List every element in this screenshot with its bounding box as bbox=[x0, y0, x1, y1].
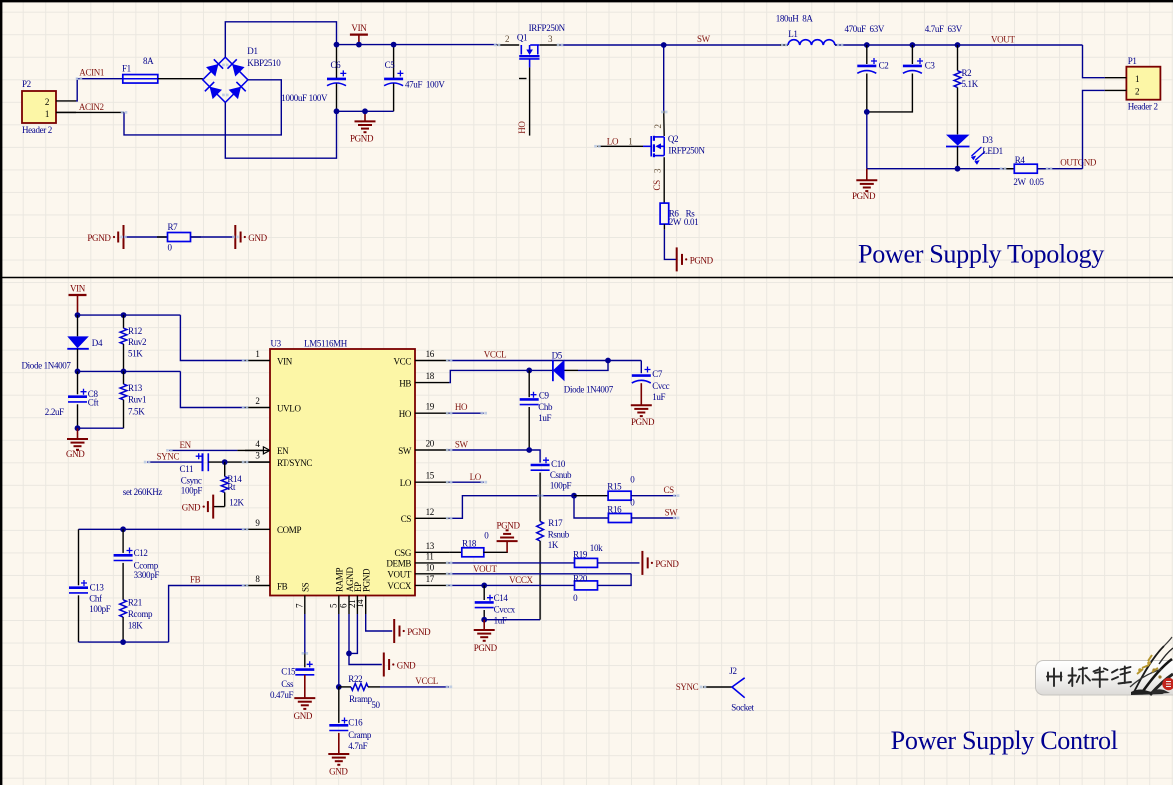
svg-text:C2: C2 bbox=[879, 61, 889, 71]
svg-text:LO: LO bbox=[607, 136, 619, 146]
wire VOUT to P1 bbox=[1083, 45, 1105, 78]
svg-text:GND: GND bbox=[397, 661, 416, 671]
wire to U3 VIN pin bbox=[180, 315, 245, 360]
svg-text:PGND: PGND bbox=[362, 568, 372, 592]
svg-text:SW: SW bbox=[398, 446, 412, 456]
ground PGND inverted bbox=[497, 540, 518, 542]
svg-text:SW: SW bbox=[665, 508, 679, 518]
svg-text:OUTGND: OUTGND bbox=[1060, 158, 1097, 168]
svg-text:100pF: 100pF bbox=[550, 481, 572, 491]
capacitor C16 bbox=[338, 687, 340, 723]
svg-text:4.7uF 63V: 4.7uF 63V bbox=[925, 24, 963, 34]
svg-text:GND: GND bbox=[294, 711, 313, 721]
IC U3 LM5116MH bbox=[270, 349, 415, 596]
svg-text:19: 19 bbox=[426, 402, 435, 412]
wire Q2 drain bbox=[663, 45, 665, 111]
svg-text:SW: SW bbox=[455, 439, 469, 449]
svg-text:Q1: Q1 bbox=[517, 32, 527, 42]
wire C8 R13 node bbox=[78, 427, 124, 429]
svg-text:PGND: PGND bbox=[690, 255, 714, 265]
U3 pin 16 VCC bbox=[415, 360, 449, 362]
svg-text:VCC: VCC bbox=[394, 356, 412, 366]
capacitor C2 bbox=[866, 45, 868, 64]
svg-text:100pF: 100pF bbox=[89, 604, 111, 614]
svg-text:HO: HO bbox=[399, 409, 412, 419]
svg-text:RT/SYNC: RT/SYNC bbox=[277, 458, 312, 468]
svg-text:R16: R16 bbox=[607, 504, 622, 514]
wire OUTGND to P1 bbox=[1083, 90, 1105, 168]
wire C2 C3 to ground rail bbox=[864, 109, 870, 115]
svg-text:F1: F1 bbox=[122, 64, 131, 74]
svg-text:2: 2 bbox=[505, 34, 509, 44]
svg-text:Rt: Rt bbox=[227, 482, 236, 492]
capacitor C6 bbox=[336, 45, 338, 79]
wire HB bbox=[449, 370, 553, 382]
section divider bbox=[0, 277, 1173, 279]
resistor R15 bbox=[574, 495, 608, 497]
svg-text:12: 12 bbox=[426, 507, 434, 517]
svg-text:HO: HO bbox=[455, 402, 468, 412]
U3 pin 5 RAMP bbox=[338, 596, 340, 615]
svg-text:2: 2 bbox=[255, 396, 259, 406]
svg-text:IRFP250N: IRFP250N bbox=[529, 23, 566, 33]
wire COMP network bbox=[79, 528, 246, 530]
wire R16 branch bbox=[574, 496, 608, 518]
svg-text:R21: R21 bbox=[128, 598, 142, 608]
svg-text:470uF 63V: 470uF 63V bbox=[845, 24, 885, 34]
svg-text:C14: C14 bbox=[494, 593, 509, 603]
svg-text:Csnub: Csnub bbox=[550, 470, 572, 480]
svg-text:Ccomp: Ccomp bbox=[134, 560, 159, 570]
svg-text:FB: FB bbox=[190, 575, 201, 585]
capacitor C14 bbox=[483, 585, 485, 600]
wire VOUT pin bbox=[449, 573, 631, 575]
resistor R16 bbox=[608, 514, 631, 523]
svg-text:2.2uF: 2.2uF bbox=[45, 407, 64, 417]
wire to U3 UVLO pin bbox=[180, 371, 245, 407]
svg-text:PGND: PGND bbox=[87, 233, 111, 243]
svg-text:SW: SW bbox=[697, 34, 711, 44]
svg-text:LO: LO bbox=[470, 472, 482, 482]
svg-text:51K: 51K bbox=[128, 349, 143, 359]
U3 pin 15 LO bbox=[415, 481, 449, 483]
wire HO bbox=[449, 412, 484, 414]
svg-text:R4: R4 bbox=[1015, 155, 1026, 165]
svg-text:Chb: Chb bbox=[538, 402, 553, 412]
wire VCCX bbox=[449, 584, 574, 586]
svg-text:R17: R17 bbox=[548, 518, 563, 528]
svg-text:Header 2: Header 2 bbox=[1128, 102, 1158, 112]
capacitor C13 bbox=[78, 529, 80, 585]
resistor R7 bbox=[124, 236, 168, 238]
svg-text:GND: GND bbox=[248, 233, 267, 243]
Q1 gate stub bbox=[519, 78, 527, 80]
svg-text:1: 1 bbox=[628, 136, 632, 146]
resistor R21 bbox=[122, 563, 124, 600]
wire PGND pin bbox=[366, 614, 393, 631]
svg-text:set 260KHz: set 260KHz bbox=[123, 487, 163, 497]
ground GND left bbox=[77, 428, 79, 439]
svg-text:L1: L1 bbox=[788, 29, 797, 39]
resistor R2 bbox=[957, 45, 959, 71]
wire FB bbox=[169, 586, 245, 643]
U3 pin 21 EP bbox=[356, 596, 358, 615]
svg-text:LED1: LED1 bbox=[982, 146, 1003, 156]
power port PGND left bbox=[123, 225, 125, 249]
svg-text:Power Supply Control: Power Supply Control bbox=[891, 726, 1118, 755]
resistor R12 bbox=[123, 315, 125, 328]
svg-text:KBP2510: KBP2510 bbox=[247, 58, 281, 68]
svg-text:Power Supply Topology: Power Supply Topology bbox=[858, 240, 1104, 269]
svg-text:14: 14 bbox=[355, 599, 365, 608]
svg-text:15: 15 bbox=[426, 471, 435, 481]
P2 pin 2 bbox=[56, 100, 76, 102]
svg-text:Diode 1N4007: Diode 1N4007 bbox=[564, 385, 614, 395]
wire CS pin bbox=[449, 496, 574, 519]
wire SW step to C10 bbox=[529, 450, 540, 463]
diode D5 bbox=[553, 360, 565, 382]
svg-text:Csync: Csync bbox=[181, 476, 202, 486]
svg-text:C3: C3 bbox=[925, 61, 936, 71]
wire comp bottom bbox=[79, 641, 169, 643]
svg-text:FB: FB bbox=[277, 581, 288, 591]
wire SYNC bbox=[147, 461, 202, 463]
svg-text:PGND: PGND bbox=[497, 520, 521, 530]
svg-text:COMP: COMP bbox=[277, 525, 301, 535]
svg-text:R22: R22 bbox=[348, 674, 362, 684]
wire SS bbox=[304, 614, 306, 653]
svg-text:1: 1 bbox=[1135, 74, 1139, 84]
svg-text:2W: 2W bbox=[669, 217, 682, 227]
wire D4 R12 node bbox=[78, 370, 181, 372]
resistor R14 bbox=[224, 462, 226, 476]
svg-text:16: 16 bbox=[426, 349, 435, 359]
svg-text:LO: LO bbox=[400, 478, 412, 488]
U3 pin 4 EN bbox=[245, 449, 270, 451]
logo watermark bbox=[1036, 661, 1173, 696]
U3 pin 7 SS bbox=[304, 596, 306, 615]
svg-text:C15: C15 bbox=[281, 667, 296, 677]
diode D4 bbox=[77, 315, 79, 336]
svg-text:R20: R20 bbox=[573, 573, 588, 583]
svg-text:0.47uF: 0.47uF bbox=[270, 690, 294, 700]
svg-text:1uF: 1uF bbox=[538, 413, 551, 423]
svg-text:Rsnub: Rsnub bbox=[548, 529, 570, 539]
capacitor C8 bbox=[77, 371, 79, 394]
svg-text:DEMB: DEMB bbox=[386, 559, 411, 569]
svg-text:2: 2 bbox=[45, 97, 49, 107]
capacitor C7 bbox=[640, 361, 642, 374]
wire SYNC J2 bbox=[703, 686, 732, 688]
LED D3 bbox=[946, 135, 970, 146]
wire ACIN1 bbox=[76, 79, 123, 101]
sheet border top bbox=[0, 0, 1173, 2]
transistor Q1 bbox=[497, 44, 519, 46]
wire D5 to VCCL bbox=[565, 369, 579, 371]
wire RAMP bbox=[338, 614, 340, 687]
svg-text:1: 1 bbox=[255, 349, 259, 359]
power port PGND below R6 bbox=[676, 247, 678, 271]
resistor R17 bbox=[539, 496, 541, 522]
capacitor C3 bbox=[911, 45, 913, 64]
wire VCCL bbox=[449, 360, 641, 362]
svg-text:R12: R12 bbox=[128, 326, 142, 336]
svg-text:Css: Css bbox=[281, 679, 294, 689]
sheet border left bbox=[0, 0, 2, 785]
svg-text:1: 1 bbox=[45, 109, 49, 119]
svg-text:Socket: Socket bbox=[731, 702, 754, 712]
svg-text:11: 11 bbox=[426, 551, 434, 561]
U3 pin 1 VIN bbox=[245, 360, 270, 362]
svg-text:PGND: PGND bbox=[407, 627, 431, 637]
svg-text:VCCL: VCCL bbox=[415, 676, 438, 686]
svg-text:VOUT: VOUT bbox=[387, 570, 411, 580]
svg-text:SS: SS bbox=[301, 582, 311, 592]
svg-text:180uH 8A: 180uH 8A bbox=[776, 13, 814, 23]
wire C14 to R17 bbox=[484, 619, 540, 621]
power port GND R14 bbox=[214, 506, 225, 508]
svg-text:3300pF: 3300pF bbox=[134, 570, 160, 580]
capacitor C11 bbox=[202, 453, 204, 471]
U3 pin 8 FB bbox=[245, 585, 270, 587]
svg-text:GND: GND bbox=[66, 449, 85, 459]
svg-text:Q2: Q2 bbox=[668, 134, 678, 144]
svg-text:2: 2 bbox=[653, 124, 663, 128]
capacitor C10 bbox=[531, 464, 550, 467]
wire bridge plus loop bbox=[225, 22, 336, 57]
svg-text:D4: D4 bbox=[92, 338, 103, 348]
P2 pin 1 bbox=[56, 111, 76, 113]
resistor R20 bbox=[575, 581, 598, 590]
wire VIN node bbox=[78, 314, 181, 316]
svg-text:50: 50 bbox=[371, 700, 380, 710]
ground rail bottom bbox=[867, 168, 1015, 170]
wire C11 to RT/SYNC pin bbox=[208, 461, 270, 463]
svg-text:VIN: VIN bbox=[351, 23, 367, 33]
svg-text:C11: C11 bbox=[180, 464, 194, 474]
svg-text:1K: 1K bbox=[548, 540, 559, 550]
svg-text:EN: EN bbox=[180, 440, 192, 450]
svg-text:2: 2 bbox=[1135, 86, 1139, 96]
wire SW bottom bbox=[449, 449, 529, 451]
svg-text:1000uF 100V: 1000uF 100V bbox=[281, 93, 328, 103]
svg-text:C7: C7 bbox=[652, 369, 663, 379]
connector P1 bbox=[1126, 67, 1160, 100]
U3 pin 13 CSG bbox=[415, 551, 449, 553]
svg-text:Cvccx: Cvccx bbox=[494, 605, 516, 615]
svg-text:8A: 8A bbox=[143, 56, 154, 66]
svg-text:Cramp: Cramp bbox=[348, 730, 372, 740]
wire ACIN2 bbox=[56, 111, 124, 113]
wire HO stub bbox=[529, 67, 531, 135]
wire bridge minus loop bbox=[225, 102, 336, 158]
wire fuse to bridge bbox=[158, 78, 203, 80]
wire VIN rail bbox=[337, 44, 498, 46]
svg-text:R19: R19 bbox=[573, 549, 588, 559]
svg-text:C9: C9 bbox=[539, 391, 550, 401]
svg-text:C10: C10 bbox=[551, 459, 566, 469]
svg-text:R15: R15 bbox=[607, 481, 622, 491]
socket J2 bbox=[732, 678, 745, 698]
svg-text:PGND: PGND bbox=[474, 643, 498, 653]
svg-text:CS: CS bbox=[664, 485, 675, 495]
svg-text:SYNC: SYNC bbox=[676, 682, 699, 692]
wire DEMB bbox=[449, 562, 574, 564]
wire SW rail bbox=[540, 44, 561, 46]
svg-text:PGND: PGND bbox=[350, 134, 374, 144]
logo characters bbox=[1047, 667, 1131, 688]
svg-text:D3: D3 bbox=[982, 135, 993, 145]
svg-text:17: 17 bbox=[426, 574, 435, 584]
svg-text:18K: 18K bbox=[128, 621, 143, 631]
svg-text:VIN: VIN bbox=[277, 356, 293, 366]
U3 pin 6 AGND bbox=[348, 596, 350, 615]
U3 pin 2 UVLO bbox=[245, 407, 270, 409]
svg-text:100pF: 100pF bbox=[181, 486, 203, 496]
svg-text:GND: GND bbox=[182, 503, 201, 513]
U3 pin 12 CS bbox=[415, 517, 449, 519]
resistor R19 bbox=[575, 558, 598, 567]
svg-text:LM5116MH: LM5116MH bbox=[304, 339, 348, 349]
wire R18 to PGND bbox=[484, 551, 508, 553]
svg-text:ACIN1: ACIN1 bbox=[79, 68, 104, 78]
U3 pin 3 RT/SYNC bbox=[245, 461, 270, 463]
power port VIN bottom bbox=[77, 295, 79, 305]
svg-text:4.7nF: 4.7nF bbox=[348, 741, 367, 751]
svg-text:PGND: PGND bbox=[852, 191, 876, 201]
P1 pin 2 bbox=[1105, 89, 1127, 91]
svg-text:R18: R18 bbox=[462, 539, 477, 549]
compile markers bbox=[494, 44, 501, 47]
svg-text:C13: C13 bbox=[90, 582, 105, 592]
svg-text:13: 13 bbox=[426, 541, 435, 551]
power port GND right bbox=[234, 225, 236, 249]
svg-text:SYNC: SYNC bbox=[157, 452, 180, 462]
svg-text:20: 20 bbox=[426, 439, 435, 449]
svg-text:12K: 12K bbox=[229, 498, 244, 508]
svg-text:VOUT: VOUT bbox=[473, 564, 497, 574]
svg-text:P1: P1 bbox=[1128, 56, 1137, 66]
U3 pin 10 VOUT bbox=[415, 573, 449, 575]
svg-text:ACIN2: ACIN2 bbox=[79, 102, 104, 112]
svg-text:EN: EN bbox=[277, 446, 289, 456]
svg-text:Rramp: Rramp bbox=[349, 694, 373, 704]
wire R19 to PGND bbox=[598, 562, 640, 564]
wire LO gate bbox=[597, 145, 643, 147]
svg-text:R13: R13 bbox=[128, 383, 143, 393]
resistor R13 bbox=[123, 371, 125, 384]
svg-text:R7: R7 bbox=[168, 222, 179, 232]
U3 pin 18 HB bbox=[415, 382, 449, 384]
wire R4 to OUTGND bbox=[1037, 168, 1082, 170]
ground PGND output bbox=[866, 169, 868, 181]
capacitor C15 bbox=[304, 653, 306, 667]
svg-text:Cft: Cft bbox=[88, 397, 99, 407]
svg-text:RAMP: RAMP bbox=[335, 568, 345, 592]
bridge rectifier D1 bbox=[203, 57, 248, 102]
U3 pin 19 HO bbox=[415, 412, 449, 414]
svg-text:R2: R2 bbox=[962, 68, 972, 78]
P1 pin 1 bbox=[1105, 77, 1127, 79]
svg-text:10k: 10k bbox=[590, 543, 603, 553]
svg-text:C16: C16 bbox=[348, 717, 363, 727]
power port PGND pin14 bbox=[393, 619, 395, 643]
wire LO bottom bbox=[449, 481, 484, 483]
svg-text:5.1K: 5.1K bbox=[962, 79, 979, 89]
ground PGND input bbox=[337, 110, 394, 112]
logo flowers bbox=[1130, 637, 1173, 695]
resistor R18 bbox=[462, 548, 484, 557]
svg-text:C5: C5 bbox=[385, 60, 396, 70]
svg-text:47uF 100V: 47uF 100V bbox=[405, 80, 445, 90]
svg-text:Chf: Chf bbox=[89, 594, 102, 604]
svg-text:VCCX: VCCX bbox=[387, 581, 411, 591]
wire Q2 source bbox=[663, 157, 665, 203]
svg-text:UVLO: UVLO bbox=[277, 403, 301, 413]
svg-text:HO: HO bbox=[517, 121, 527, 134]
svg-text:Ruv2: Ruv2 bbox=[128, 337, 146, 347]
svg-text:Header 2: Header 2 bbox=[22, 125, 52, 135]
wire R22 to VCCL bbox=[380, 686, 449, 688]
U3 pin 9 COMP bbox=[245, 528, 270, 530]
svg-text:IRFP250N: IRFP250N bbox=[668, 145, 705, 155]
svg-text:J2: J2 bbox=[729, 666, 736, 676]
wire EN bbox=[169, 449, 237, 451]
transistor Q2 bbox=[650, 136, 652, 157]
svg-text:18: 18 bbox=[426, 371, 435, 381]
wire R20 to VOUT bbox=[598, 574, 631, 586]
power port PGND R19 bbox=[641, 551, 643, 575]
capacitor C5 bbox=[393, 45, 395, 79]
svg-text:0.01: 0.01 bbox=[684, 217, 698, 227]
svg-text:VCCX: VCCX bbox=[509, 575, 533, 585]
ground GND C16 bbox=[338, 733, 340, 754]
svg-text:1uF: 1uF bbox=[652, 392, 665, 402]
svg-text:7.5K: 7.5K bbox=[128, 407, 145, 417]
svg-text:2W 0.05: 2W 0.05 bbox=[1013, 177, 1044, 187]
capacitor C12 bbox=[122, 529, 124, 553]
U3 pin 11 DEMB bbox=[415, 562, 449, 564]
svg-text:VIN: VIN bbox=[70, 284, 86, 294]
U3 pin 14 PGND bbox=[365, 596, 367, 615]
resistor R4 bbox=[1003, 168, 1014, 170]
ground GND C15 bbox=[304, 675, 306, 698]
svg-text:C12: C12 bbox=[134, 548, 148, 558]
wire AGND EP bbox=[349, 614, 357, 653]
svg-text:D5: D5 bbox=[552, 350, 563, 360]
wire R6 to PGND bbox=[663, 224, 665, 229]
wire CSG R18 bbox=[449, 551, 462, 553]
svg-text:U3: U3 bbox=[271, 339, 282, 349]
power port VIN top bbox=[358, 35, 360, 45]
svg-text:Diode 1N4007: Diode 1N4007 bbox=[22, 360, 72, 370]
svg-text:P2: P2 bbox=[22, 79, 31, 89]
svg-text:PGND: PGND bbox=[631, 417, 655, 427]
svg-text:VOUT: VOUT bbox=[991, 34, 1015, 44]
capacitor C9 bbox=[528, 370, 530, 397]
svg-text:CS: CS bbox=[401, 514, 412, 524]
svg-text:C6: C6 bbox=[331, 60, 342, 70]
inductor L1 bbox=[780, 44, 788, 46]
ground PGND C14 bbox=[483, 620, 485, 630]
svg-text:Ruv1: Ruv1 bbox=[128, 395, 146, 405]
svg-text:Rcomp: Rcomp bbox=[128, 609, 153, 619]
svg-text:D1: D1 bbox=[247, 46, 257, 56]
wire SW to VOUT rail bbox=[835, 44, 1083, 46]
resistor R6 bbox=[660, 203, 669, 224]
svg-text:10: 10 bbox=[426, 562, 435, 572]
fuse F1 bbox=[123, 75, 158, 84]
